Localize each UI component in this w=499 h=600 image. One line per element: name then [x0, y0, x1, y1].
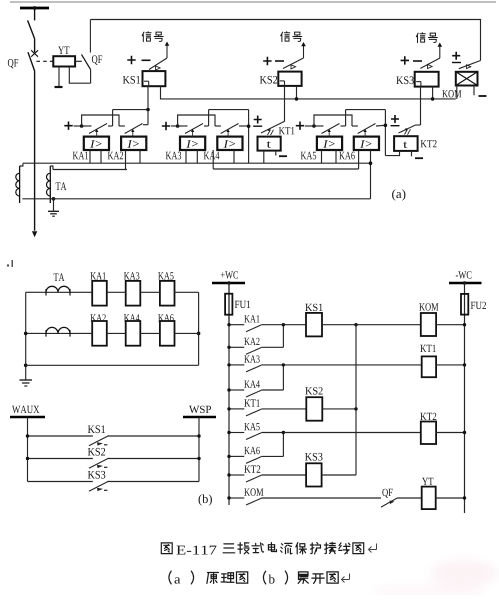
label signal2 plus minus	[263, 57, 284, 65]
node bus junction KOM row	[227, 496, 230, 499]
wire CT primary top jog	[20, 163, 23, 166]
contact KA5 row b	[229, 433, 261, 440]
node wire A end junction	[369, 161, 373, 165]
wire KA4 contact out	[239, 125, 249, 127]
CT TA secondary winding	[46, 166, 50, 203]
node group3 junction	[312, 124, 316, 128]
node group1 junction	[80, 124, 84, 128]
wire group3 output bus	[346, 110, 386, 156]
node bus junction KT1 row	[227, 407, 230, 410]
relay coil KA4 b	[126, 321, 141, 346]
relay coil KA2	[121, 137, 146, 150]
contact KA1	[82, 124, 107, 137]
node +WC junction	[227, 281, 231, 285]
node KT2 input junction	[384, 124, 388, 128]
wire YT right leg L to QF aux	[69, 67, 90, 84]
wire KA5 b to right bus	[175, 291, 199, 293]
label KA1 b	[90, 272, 105, 279]
wire KA5 row to KT2 coil	[283, 432, 420, 434]
label signal3 text	[416, 33, 437, 43]
node bus junction KA6 row	[227, 455, 230, 458]
wire KA6 contact out	[376, 124, 385, 127]
wire WSP drop	[198, 417, 200, 482]
wire KA1 legs	[90, 150, 101, 163]
signal relay KS3 box	[415, 72, 439, 87]
trip coil YT box	[53, 56, 75, 66]
label KA1 row b	[244, 315, 259, 322]
node YT -WC junction	[463, 496, 466, 499]
label diagram a	[392, 189, 405, 200]
wire top rail from QF aux to KOM contact	[90, 20, 480, 61]
label +WC	[221, 271, 238, 278]
label QF main	[8, 59, 18, 68]
label signal1 plus minus	[127, 56, 150, 64]
signal1 arrow	[165, 42, 170, 59]
wire feeder down to TA	[34, 72, 36, 231]
node KT1 input junction	[247, 124, 251, 128]
wire A phase-a secondary	[23, 162, 371, 164]
signal relay coil KS2 b	[306, 397, 322, 421]
time relay KT1 box	[258, 137, 281, 151]
label KA5 b	[158, 272, 173, 279]
label KA6 row b	[244, 447, 260, 454]
contact KS3 signal	[420, 58, 439, 68]
wire CT secondary top jog	[50, 166, 53, 170]
node bus junction KA5 row	[227, 431, 230, 434]
wire C common return	[22, 198, 370, 200]
label KS3	[396, 76, 414, 84]
node KS2 collect junction	[354, 407, 357, 410]
label KS1 coil b	[305, 304, 322, 311]
label KA3	[166, 152, 181, 160]
wire -WC bus drop	[464, 283, 466, 513]
wire KA5 legs	[322, 150, 337, 163]
label KA2	[108, 152, 123, 160]
signal2 arrow	[301, 42, 306, 58]
signal relay coil KS1 b	[306, 313, 322, 337]
time relay coil KT2 b	[421, 422, 436, 445]
wire KA1 row to merge	[261, 324, 283, 326]
wire QF contact to YT coil	[397, 497, 422, 499]
wire KS3 right leg	[432, 87, 434, 99]
contact KS2 signal	[283, 58, 304, 69]
label WAUX	[12, 406, 39, 413]
wire +WC bus drop	[228, 283, 230, 505]
wire busbar drop	[34, 8, 36, 20]
label KT1	[279, 127, 295, 134]
signal3 arrow	[437, 43, 442, 59]
label KT2 row b	[244, 465, 260, 472]
wire KOM right leg minus	[474, 86, 487, 97]
contact KS1 b	[28, 436, 200, 446]
label KOM coil b	[419, 303, 438, 310]
relay coil KA5 b	[160, 281, 175, 306]
relay coil KA6 b	[160, 321, 175, 346]
label KA3 b	[124, 272, 139, 279]
label KS3 coil b	[305, 453, 323, 461]
watermark	[370, 559, 498, 600]
node merge KA5 KA6	[282, 431, 285, 434]
contact KA4	[215, 124, 239, 137]
contact QF b	[381, 498, 397, 507]
wire WAUX drop	[27, 417, 29, 482]
wire group3 plus to junction	[305, 125, 314, 127]
wire KA6 b to right bus	[175, 332, 199, 334]
wire KA4 row merge riser	[261, 365, 283, 390]
label signal3 plus minus	[401, 56, 422, 64]
label KOM	[442, 90, 461, 97]
trip coil YT b	[422, 487, 436, 510]
contact KA2 row b	[229, 347, 261, 354]
wire KA4 legs	[213, 150, 234, 169]
wire KA2 contact out	[143, 110, 148, 125]
node KT1 -WC junction	[463, 363, 466, 366]
wire KA6 b link	[140, 332, 160, 334]
contact KA3	[178, 124, 203, 137]
wire KA2 b link	[78, 332, 92, 334]
label TA	[56, 182, 67, 190]
node merge KA3 KA4	[282, 363, 285, 366]
node KOM -WC junction	[463, 323, 466, 326]
wire KS1 left leg	[147, 86, 149, 109]
wire KA3 b link	[107, 291, 126, 293]
caption subtitle	[169, 571, 350, 584]
label KS1	[123, 76, 140, 84]
label KT1 plusminus	[253, 116, 262, 127]
wire b right bus top	[198, 292, 200, 333]
node group2 junction	[176, 124, 180, 128]
relay coil KA1	[84, 137, 109, 150]
wire KA2 legs	[126, 150, 141, 170]
label KA2 row b	[244, 338, 259, 345]
bus +WC	[212, 282, 245, 285]
contact KS2 b	[28, 458, 200, 468]
caption title	[161, 542, 376, 554]
relay coil KA2 b	[92, 321, 107, 346]
node KS3 rail junction	[431, 97, 435, 101]
wire KA2 row merge riser	[261, 325, 283, 348]
node merge KA1 KA2	[282, 323, 285, 326]
label signal1 text	[142, 32, 163, 42]
contact KT1 time delay	[261, 121, 285, 135]
label YT coil b	[422, 478, 433, 485]
wire KA5 row to merge	[261, 432, 283, 434]
wire KT1 row to KS2 coil	[261, 408, 306, 410]
time relay KT2 box	[394, 136, 418, 151]
node KT2 -WC junction	[463, 431, 466, 434]
label KS2 coil b	[305, 387, 322, 394]
label KS2 b	[88, 448, 105, 456]
wire KS2 right leg	[296, 86, 298, 99]
wire KA3 row to merge	[261, 364, 283, 366]
node KS2 row junctions	[26, 457, 201, 460]
wire KA3 legs	[186, 150, 197, 163]
wire KA4 b link	[107, 332, 126, 334]
label KT2 coil b	[420, 413, 436, 420]
wire KA3 row to KT1 coil	[283, 364, 421, 366]
ground b	[20, 380, 33, 386]
signal relay KS1 box	[143, 71, 166, 86]
wire merge to KS1 coil	[283, 324, 306, 326]
wire KA1 contact out riser	[108, 110, 113, 126]
relay coil KA3 b	[126, 281, 141, 306]
relay coil KA4	[217, 137, 242, 150]
wire KT2 row to KS3 coil	[261, 474, 306, 476]
wire group1 plus to junction	[74, 125, 82, 127]
node bus junction KA3 row	[227, 363, 230, 366]
fuse FU2	[461, 294, 468, 315]
wire group2 jumper to KA4 contact	[178, 115, 215, 126]
contact KOM row b	[229, 498, 261, 505]
signal relay KS2 box	[278, 72, 301, 86]
wire KT2 coil to -WC	[436, 432, 464, 434]
CT TA b phase-c winding	[39, 327, 78, 336]
time relay coil KT1 b	[422, 356, 436, 377]
CT TA b phase-a winding	[39, 286, 78, 295]
wire KS2 coil to collect bus	[322, 408, 356, 410]
wire KS2 left leg to KT1 contact	[284, 86, 286, 121]
wire KT1 left leg	[263, 151, 265, 164]
label KS3 b	[88, 471, 106, 479]
busbar	[20, 7, 49, 10]
wire YT left leg with minus terminal	[55, 67, 63, 88]
label YT	[58, 46, 69, 54]
wire B phase-c secondary left segment	[53, 169, 127, 171]
node bus junction KT2 row	[227, 473, 230, 476]
wire group2 output bus	[209, 110, 249, 164]
label KOM row b	[244, 488, 263, 495]
contact KA5	[314, 124, 340, 137]
wire KS1 coil to collect bus	[322, 324, 356, 326]
output relay coil KOM b	[421, 313, 436, 336]
label diagram b	[199, 494, 212, 505]
wire KT1 right leg minus	[276, 151, 287, 157]
label -WC	[456, 271, 472, 278]
label KA2 b	[90, 314, 105, 321]
label KOM plusminus	[452, 52, 461, 63]
ground	[48, 199, 59, 216]
label KS1 b	[88, 425, 105, 433]
wire KT2 left leg	[385, 151, 399, 156]
wire KT2 right leg minus	[412, 151, 424, 158]
relay coil KA3	[180, 137, 205, 150]
relay coil KA1 b	[92, 281, 107, 306]
label KT1 coil b	[420, 345, 436, 352]
node bus junction KA1 row	[227, 323, 230, 326]
label KT1 row b	[244, 399, 260, 406]
contact KA4 row b	[229, 390, 261, 397]
label FU1	[235, 301, 250, 308]
contact KA2	[119, 124, 143, 137]
contact KS3 b	[28, 481, 200, 491]
node KS1 row junctions	[26, 434, 201, 437]
wire YT to QF aux contact	[75, 60, 82, 62]
QF auxiliary contact	[82, 20, 91, 70]
bus WAUX	[10, 416, 45, 419]
label KA4 b	[124, 314, 140, 321]
wire b bottom return	[26, 333, 199, 365]
node KS2 rail junction	[295, 97, 299, 101]
label KA6	[339, 152, 355, 160]
wire group3 jumper to KA6 contact	[314, 115, 352, 126]
wire KA6 row merge riser	[261, 433, 283, 457]
node bus junction KA4 row	[227, 388, 230, 391]
wire group2 plus to junction	[171, 125, 178, 127]
label signal2 text	[281, 32, 302, 42]
relay coil KA6	[354, 137, 379, 150]
label KA4 row b	[244, 380, 260, 387]
wire between disconnector and QF	[34, 39, 36, 53]
node group1 plus terminal	[64, 122, 72, 130]
breaker QF main contact	[28, 50, 38, 71]
label KA5 row b	[244, 423, 259, 430]
node group2 plus terminal	[162, 122, 170, 130]
wire KOM coil to -WC	[436, 324, 464, 326]
wire YT coil to -WC	[436, 497, 465, 499]
node b left junctions	[24, 332, 28, 368]
wire KT1 coil to -WC	[436, 364, 464, 366]
contact KA1 row b	[229, 325, 261, 332]
wire KS3 left leg to KT2 contact	[420, 87, 422, 125]
label KA5	[301, 152, 316, 160]
CT TA primary winding	[16, 166, 20, 203]
fuse FU1	[225, 283, 232, 325]
disconnector switch	[28, 20, 35, 38]
wire b left bus	[26, 292, 39, 380]
node KS1 input junction	[146, 108, 150, 112]
contact KT2 time delay	[399, 125, 421, 135]
wire group1 output bus	[113, 109, 148, 111]
label KA4	[204, 152, 220, 160]
wire KS1 out to KOM coil	[356, 324, 421, 326]
node b right junction	[197, 332, 201, 336]
contact KOM	[459, 61, 481, 69]
contact KA6	[352, 124, 376, 137]
wire KS1 right leg to rail	[161, 86, 456, 99]
label KA1	[73, 152, 88, 160]
node collect bus top	[354, 323, 357, 326]
artifact dots left margin	[7, 260, 13, 267]
contact KT2 row b	[229, 475, 261, 482]
node bus junction KA2 row	[227, 346, 230, 349]
wire KA5 b link	[140, 291, 160, 293]
contact KA3 row b	[229, 365, 261, 372]
wire KS3 coil to collect bus	[322, 474, 356, 476]
contact KT1 row b	[229, 409, 261, 416]
wire B phase-c secondary right segment	[213, 168, 358, 170]
label KA6 b	[158, 314, 174, 321]
label TA b	[54, 273, 65, 281]
wire KOM row to QF contact	[261, 497, 381, 499]
wire KA3 contact out riser	[204, 110, 209, 126]
wire KA6 legs	[359, 150, 371, 199]
label KT2	[421, 140, 437, 147]
bus WSP	[183, 416, 216, 419]
wire KA5 contact out riser	[341, 110, 346, 126]
label FU2	[471, 302, 486, 309]
wire KA1 b link	[78, 291, 92, 293]
wire collect bus vertical	[355, 325, 357, 475]
contact KS1 signal	[149, 58, 167, 70]
label WSP	[189, 406, 211, 413]
output relay KOM box	[456, 72, 478, 86]
label KT2 plusminus	[391, 115, 400, 126]
node -WC junction	[463, 281, 467, 285]
node group3 plus terminal	[296, 122, 304, 130]
wire dashed QF link to YT	[37, 60, 54, 62]
bus -WC	[449, 282, 482, 285]
node CT ground junction	[52, 197, 56, 201]
label QF b	[382, 489, 392, 498]
relay coil KA5	[317, 137, 342, 150]
label QF aux	[92, 55, 102, 64]
feeder arrow	[32, 231, 37, 237]
node busbar junction	[33, 6, 37, 10]
wire top border line	[10, 1, 496, 3]
label KS2	[260, 76, 277, 84]
wire group1 jumper to KA2 contact	[82, 115, 119, 126]
wire KOM left leg	[456, 86, 458, 99]
contact KA6 row b	[229, 456, 261, 463]
signal relay coil KS3 b	[306, 463, 322, 486]
label KA3 row b	[244, 355, 259, 362]
